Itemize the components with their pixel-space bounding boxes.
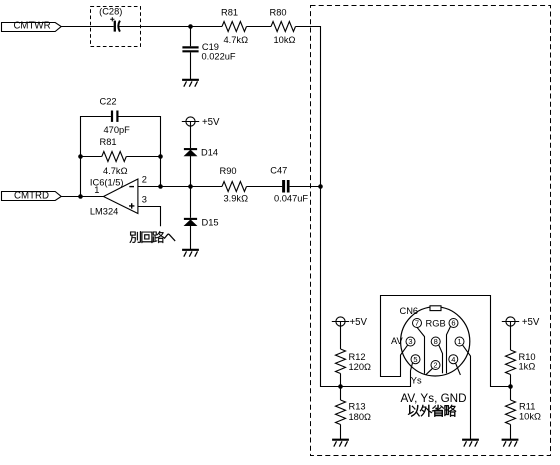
svg-text:D15: D15	[202, 217, 219, 227]
svg-text:120Ω: 120Ω	[349, 362, 372, 372]
diode D15	[184, 217, 219, 227]
ground (C19)	[182, 80, 199, 87]
svg-text:C19: C19	[202, 42, 219, 52]
resistor R80 10k	[270, 7, 296, 45]
svg-text:3.9kΩ: 3.9kΩ	[224, 193, 249, 203]
svg-text:+5V: +5V	[202, 117, 220, 128]
svg-text:3: 3	[142, 195, 147, 205]
resistor R10 1k	[506, 350, 536, 374]
wire node A to R81	[191, 26, 223, 28]
wire R80 into dashed box, down right side	[296, 27, 321, 187]
resistor R12 120	[336, 349, 372, 373]
wire C28 to node A	[119, 26, 191, 28]
wire C19 to ground	[190, 52, 192, 79]
capacitor C28 (optional, polarized)	[99, 7, 122, 32]
wire AV: pin3 to node E	[381, 296, 511, 387]
svg-text:(C28): (C28)	[99, 7, 122, 17]
ground (D15)	[182, 250, 199, 257]
svg-text:C47: C47	[270, 166, 287, 176]
svg-text:470pF: 470pF	[104, 125, 131, 135]
svg-text:1: 1	[94, 185, 99, 195]
svg-text:3: 3	[408, 337, 412, 346]
pin 8	[431, 337, 440, 346]
svg-text:4.7kΩ: 4.7kΩ	[224, 35, 249, 45]
dashed enclosure box (TV/monitor side)	[311, 6, 551, 456]
wire D15 to ground	[190, 226, 192, 249]
junction feedback left	[78, 154, 83, 159]
wire CMTWR to C28	[61, 26, 113, 28]
wire +5V to R12	[340, 322, 342, 350]
wire R81 to R80	[247, 26, 272, 28]
ground (R13)	[332, 440, 349, 447]
wire R10 to node E	[510, 375, 512, 387]
svg-text:R13: R13	[349, 402, 366, 412]
svg-text:RGB: RGB	[426, 319, 446, 329]
wire feedback resistor left	[81, 156, 102, 158]
pin 6	[449, 319, 458, 328]
wire pin7 to shell ground	[417, 327, 425, 374]
wire node D to R13	[340, 387, 342, 401]
note igai shouryaku (others omitted)	[408, 405, 456, 417]
wire CMTRD to op-amp output	[61, 196, 104, 198]
ground (connector)	[462, 440, 479, 447]
svg-text:10kΩ: 10kΩ	[519, 411, 541, 421]
label to another circuit (bekkairo-e)	[130, 231, 176, 243]
resistor R13 180	[336, 400, 372, 424]
wire Ys: pin5 to node D	[341, 363, 413, 387]
svg-text:4.7kΩ: 4.7kΩ	[103, 166, 128, 176]
svg-text:180Ω: 180Ω	[349, 412, 372, 422]
resistor R81 4.7k (feedback)	[100, 137, 128, 176]
wire pin 3 to other circuit	[138, 207, 161, 227]
svg-text:2: 2	[142, 175, 147, 185]
wire node A down to C19	[190, 27, 192, 47]
svg-text:6: 6	[451, 319, 455, 328]
pin 2	[431, 361, 440, 370]
svg-text:R90: R90	[220, 166, 237, 176]
svg-text:Ys: Ys	[411, 376, 422, 386]
wire node B down to D15	[190, 187, 192, 218]
svg-text:CN6: CN6	[400, 306, 419, 316]
svg-text:C22: C22	[100, 96, 117, 106]
wire C22 top loop	[81, 117, 161, 197]
wire pin2 to shell ground	[426, 368, 433, 375]
pin 7	[413, 319, 422, 328]
svg-text:1kΩ: 1kΩ	[519, 362, 536, 372]
node B junction	[188, 184, 193, 189]
diode D14	[184, 147, 218, 157]
svg-text:R80: R80	[270, 7, 287, 17]
wire +5V to R10	[510, 322, 512, 351]
wire node C down to divider	[321, 187, 341, 387]
svg-text:CMTRD: CMTRD	[14, 190, 49, 201]
svg-text:R12: R12	[349, 352, 366, 362]
capacitor C22 470pF (feedback)	[100, 96, 131, 135]
wire R12 to node D	[340, 374, 342, 387]
svg-text:0.047uF: 0.047uF	[274, 193, 308, 203]
junction pin2/feedback	[158, 184, 163, 189]
svg-text:1: 1	[457, 337, 461, 346]
svg-text:10kΩ: 10kΩ	[274, 35, 296, 45]
wire node B to R90	[191, 186, 223, 188]
svg-text:5: 5	[413, 355, 417, 364]
dashed option box around C28	[91, 7, 141, 47]
wire feedback resistor right	[126, 156, 160, 158]
svg-text:R11: R11	[519, 401, 535, 411]
pin 4	[449, 355, 458, 364]
capacitor C47 0.047uF	[270, 166, 308, 204]
junction output node	[78, 194, 83, 199]
wire R13 to ground	[340, 425, 342, 440]
svg-text:AV: AV	[391, 336, 404, 346]
power +5V (left divider)	[332, 317, 368, 328]
wire pin 2 to node B	[138, 186, 191, 188]
wire pin8 to shell ground	[439, 345, 443, 374]
pin 3	[406, 337, 415, 346]
svg-text:0.022uF: 0.022uF	[202, 51, 236, 61]
op-amp U IC6(1/5) LM324	[90, 175, 147, 217]
power +5V (top)	[182, 117, 220, 128]
svg-text:2: 2	[433, 361, 437, 370]
svg-text:8: 8	[434, 337, 438, 346]
wire R90 to C47	[247, 186, 283, 188]
resistor R81 4.7k (top)	[221, 7, 248, 45]
wire pin1 to ground	[462, 345, 470, 439]
node C junction	[318, 184, 323, 189]
capacitor C19 0.022uF	[182, 42, 236, 62]
pin 5	[411, 355, 420, 364]
svg-text:+5V: +5V	[522, 317, 540, 328]
connector key notch	[430, 306, 441, 311]
wire R11 to ground	[510, 425, 512, 440]
net label CMTWR	[2, 20, 62, 31]
svg-text:R10: R10	[519, 352, 536, 362]
svg-text:AV, Ys, GND: AV, Ys, GND	[401, 392, 467, 405]
power +5V (right divider)	[502, 317, 540, 328]
svg-text:+5V: +5V	[350, 317, 368, 328]
junction feedback right	[158, 154, 163, 159]
node E junction (AV pullup)	[508, 384, 513, 389]
wire node E to R11	[510, 387, 512, 401]
node A junction	[188, 24, 193, 29]
node D junction (Ys divider)	[338, 384, 343, 389]
wire D14 to node B	[190, 156, 192, 187]
wire +5V to D14	[190, 122, 192, 149]
svg-text:R81: R81	[100, 137, 117, 147]
svg-text:LM324: LM324	[90, 206, 118, 216]
wire pin6 to shell ground	[447, 326, 451, 373]
resistor R11 10k	[506, 400, 541, 424]
resistor R90 3.9k	[220, 166, 249, 204]
ground (R11)	[502, 440, 519, 447]
svg-text:CMTWR: CMTWR	[13, 20, 50, 31]
svg-text:4: 4	[451, 355, 455, 364]
svg-text:D14: D14	[201, 147, 218, 157]
net label CMTRD	[2, 190, 62, 201]
svg-text:R81: R81	[221, 7, 238, 17]
wire pin4 stub	[456, 363, 461, 375]
connector CN6 shell (DIN-8)	[401, 307, 470, 376]
wire C47 to node C	[290, 186, 321, 188]
pin 1	[455, 337, 464, 346]
svg-text:7: 7	[415, 319, 419, 328]
